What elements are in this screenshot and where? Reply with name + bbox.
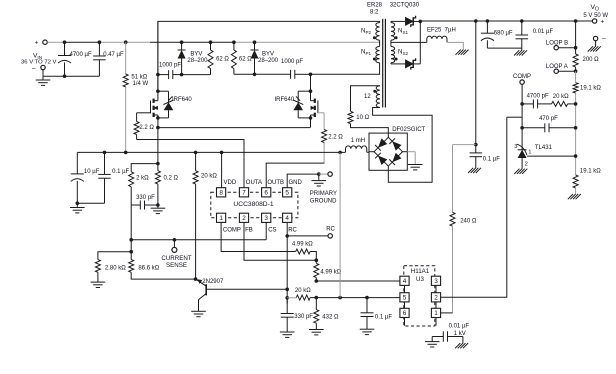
svg-text:51 kΩ: 51 kΩ: [131, 74, 147, 80]
capacitor 0.1uF VDD: [77, 152, 129, 203]
winding NP1: [361, 40, 380, 63]
svg-text:1: 1: [528, 150, 531, 156]
svg-text:10 Ω: 10 Ω: [356, 115, 369, 121]
svg-text:GND: GND: [289, 180, 303, 186]
svg-text:62 Ω: 62 Ω: [216, 57, 229, 63]
wire pin8 VDD: [221, 152, 223, 187]
resistor 20k slope: [193, 152, 217, 279]
svg-text:RC: RC: [326, 227, 335, 233]
svg-text:LOOP A: LOOP A: [546, 64, 568, 70]
wire opto pin5 line: [310, 296, 400, 300]
svg-text:0.1 µF: 0.1 µF: [483, 156, 500, 162]
terminal VIN-: [31, 65, 45, 76]
svg-text:28–200: 28–200: [187, 58, 208, 64]
svg-text:OUTA: OUTA: [246, 180, 262, 186]
svg-text:2.2 Ω: 2.2 Ω: [139, 125, 154, 131]
winding NP2: [361, 23, 380, 41]
diode body left: [156, 91, 174, 120]
svg-text:CS: CS: [268, 228, 276, 234]
svg-text:CURRENT: CURRENT: [161, 255, 191, 262]
wire TL431 ref to divider: [527, 155, 576, 157]
capacitor 0.1uF opto: [361, 298, 393, 330]
capacitor 680uF output: [481, 21, 522, 48]
wire output bus: [420, 19, 592, 23]
bridge diodes: [375, 138, 401, 165]
resistor 0.2ohm shunt: [155, 164, 178, 205]
ground opto cap: [360, 329, 375, 334]
wire opto pin1 anode: [441, 312, 453, 314]
svg-text:4700 pF: 4700 pF: [527, 94, 549, 100]
svg-text:62 Ω: 62 Ω: [239, 57, 252, 63]
svg-text:2N2907: 2N2907: [202, 279, 224, 285]
svg-text:19.1 kΩ: 19.1 kΩ: [580, 85, 601, 91]
svg-text:3: 3: [264, 215, 268, 222]
transistor Q3 2N2907: [194, 277, 287, 311]
wire NP1 bottom to right drain: [309, 63, 380, 76]
svg-text:BYV: BYV: [190, 51, 202, 57]
svg-text:4: 4: [403, 278, 407, 285]
transformer core: [383, 19, 386, 108]
resistor 4.99k lower: [314, 260, 342, 281]
svg-text:20 kΩ: 20 kΩ: [201, 174, 217, 180]
svg-text:SENSE: SENSE: [166, 262, 187, 269]
ground Y-cap primary: [425, 342, 440, 347]
wire source line: [156, 118, 310, 129]
capacitor 1000pF left snubber: [158, 62, 182, 79]
wire aux winding bottom to bridge: [373, 108, 433, 183]
resistor 19.1k upper: [573, 71, 601, 93]
terminal LOOP B: [546, 41, 576, 50]
svg-text:IRF640: IRF640: [275, 97, 295, 103]
svg-text:4.99 kΩ: 4.99 kΩ: [320, 270, 341, 276]
terminal VO-: [593, 36, 605, 47]
terminal COMP: [513, 74, 531, 150]
resistor 240ohm: [450, 145, 477, 313]
svg-text:H11A1: H11A1: [411, 268, 430, 275]
svg-text:5 V 50 W: 5 V 50 W: [583, 13, 608, 19]
label VIN 36 V TO 72 V: [21, 52, 57, 65]
svg-text:BYV: BYV: [262, 51, 274, 57]
svg-text:0.1 µF: 0.1 µF: [375, 314, 392, 320]
capacitor 4700pF zero: [522, 94, 549, 109]
svg-text:OUTB: OUTB: [267, 180, 284, 186]
label U1 pin names top: [224, 180, 303, 186]
resistor 432ohm: [314, 298, 339, 330]
transistor Q1 IRF640 left: [137, 91, 193, 118]
resistor 2.80k: [95, 252, 131, 282]
diode BYV 28-200 left: [178, 42, 208, 76]
terminal CURRENT SENSE: [161, 240, 191, 269]
resistor 86.6k: [129, 252, 196, 279]
svg-text:432 Ω: 432 Ω: [322, 315, 339, 321]
capacitor 0.01uF 1kV Y-cap: [432, 324, 469, 344]
svg-text:1000 pF: 1000 pF: [159, 62, 181, 68]
resistor 51k 1/4W: [123, 42, 148, 152]
svg-text:µH: µH: [448, 28, 456, 34]
wire divider top: [574, 21, 578, 54]
capacitor 4700uF input: [58, 42, 92, 76]
ground input: [36, 76, 51, 85]
svg-text:COMP: COMP: [223, 228, 241, 234]
capacitor 0.47uF input: [93, 42, 124, 76]
svg-text:0.01 µF: 0.01 µF: [533, 29, 554, 35]
svg-text:2 kΩ: 2 kΩ: [136, 176, 149, 182]
ground output filter: [514, 50, 527, 55]
wire VO+ down line: [474, 21, 478, 146]
transistor Q2 IRF640 right: [275, 74, 325, 118]
svg-text:TL431: TL431: [535, 145, 553, 151]
ground 2.80k: [91, 282, 106, 287]
wire pin1 COMP down: [221, 222, 296, 251]
inductor 1mH: [340, 138, 369, 152]
wire VDD to ramp divider: [339, 152, 341, 297]
svg-text:4.99 kΩ: 4.99 kΩ: [292, 241, 313, 247]
capacitor 1000pF right snubber: [255, 59, 311, 79]
wire secondary center tap: [391, 41, 427, 43]
svg-text:2.2 Ω: 2.2 Ω: [328, 134, 343, 140]
diode body right: [293, 89, 312, 127]
svg-text:+: +: [35, 40, 39, 47]
resistor 62ohm right: [231, 42, 254, 74]
svg-text:GROUND: GROUND: [310, 198, 337, 204]
wire drain A vertical: [156, 21, 160, 93]
capacitor 330pF RC: [281, 298, 314, 332]
svg-text:5: 5: [403, 295, 407, 302]
svg-text:−: −: [31, 66, 35, 73]
svg-text:1/4 W: 1/4 W: [133, 81, 149, 87]
svg-text:+: +: [601, 19, 605, 26]
op-amp U1 pins: [217, 188, 292, 223]
terminal LOOP A: [546, 64, 577, 73]
wire pin5 to primary ground: [287, 172, 328, 187]
capacitor 0.1uF bias: [470, 145, 501, 168]
svg-text:FB: FB: [245, 228, 253, 234]
svg-text:0.01 µF: 0.01 µF: [449, 324, 470, 330]
diode 32CTQ030 bottom: [391, 58, 420, 69]
wire OUTA to gate: [137, 140, 244, 188]
svg-text:UCC3808D-1: UCC3808D-1: [233, 201, 273, 208]
wire CS line: [129, 222, 266, 253]
diode BYV 28-200 right: [251, 42, 279, 76]
terminal primary ground: [328, 172, 332, 176]
wire VIN bus gray segment to center tap: [232, 40, 380, 44]
svg-text:6: 6: [264, 190, 268, 197]
wire pin4 RC down: [285, 222, 289, 303]
svg-text:330 pF: 330 pF: [136, 195, 155, 201]
svg-text:8:2: 8:2: [370, 9, 379, 15]
capacitor 470pF pole: [522, 116, 576, 133]
terminal VO+: [592, 19, 604, 26]
wire to 240ohm: [453, 144, 476, 146]
wire drain A top bus: [158, 21, 380, 91]
svg-text:4: 4: [285, 215, 289, 222]
svg-text:36 V TO 72 V: 36 V TO 72 V: [21, 59, 57, 65]
node VIN bus: [47, 40, 234, 44]
wire TL431 anode: [521, 158, 523, 169]
rectifier DF02SGICT bridge: [369, 127, 426, 170]
svg-text:0.2 Ω: 0.2 Ω: [164, 176, 179, 182]
ground shunt: [151, 203, 166, 213]
svg-text:5: 5: [285, 190, 289, 197]
svg-text:330 pF: 330 pF: [294, 314, 313, 320]
ground divider bottom: [568, 194, 581, 199]
wire rectifier cathode node: [419, 21, 421, 64]
svg-text:240 Ω: 240 Ω: [460, 218, 477, 224]
winding NS1: [391, 21, 409, 40]
wire feedback node vertical: [574, 93, 578, 175]
terminal RC: [287, 227, 335, 238]
ground RC cap: [280, 332, 295, 337]
ground VDD caps: [70, 203, 85, 213]
svg-text:0.1 µF: 0.1 µF: [112, 169, 129, 175]
winding aux 12 turns: [364, 86, 380, 108]
ground 432ohm: [309, 330, 324, 335]
diode 32CTQ030 top: [391, 16, 422, 27]
resistor 62ohm left: [182, 42, 230, 74]
label PRIMARY GROUND: [310, 191, 337, 204]
ground secondary after inductor: [456, 50, 469, 55]
svg-text:1 kV: 1 kV: [454, 331, 466, 337]
resistor 20k ramp: [287, 288, 312, 300]
svg-text:20 kΩ: 20 kΩ: [553, 94, 569, 100]
svg-text:−: −: [602, 36, 606, 43]
wire opto cathode tee: [507, 116, 522, 118]
ground primary: [312, 174, 327, 186]
op-amp U1 UCC3808D-1 outline: [211, 192, 298, 218]
svg-text:IRF640: IRF640: [172, 97, 192, 103]
svg-text:19.1 kΩ: 19.1 kΩ: [580, 168, 601, 174]
svg-text:200 Ω: 200 Ω: [583, 57, 600, 63]
resistor 4.99k upper: [292, 241, 318, 262]
svg-text:4700 µF: 4700 µF: [70, 52, 92, 58]
resistor 2.2ohm gate left: [134, 113, 154, 140]
wire pin2 FB down: [244, 222, 316, 260]
optocoupler U3 pins: [400, 276, 441, 326]
svg-text:3: 3: [434, 278, 438, 285]
svg-text:1: 1: [219, 215, 223, 222]
svg-text:12: 12: [364, 94, 371, 100]
svg-text:6: 6: [403, 310, 407, 317]
terminal VIN+: [35, 40, 48, 47]
node VDD rail: [77, 151, 342, 155]
resistor 19.1k lower: [573, 168, 601, 194]
label U1 pin names bottom: [223, 228, 298, 234]
capacitor 330pF filter: [131, 195, 158, 210]
ground bias cap: [468, 168, 481, 173]
svg-text:680 µF: 680 µF: [494, 30, 513, 36]
svg-text:LOOP B: LOOP B: [546, 41, 568, 47]
svg-text:1000 pF: 1000 pF: [281, 59, 303, 65]
svg-text:10 µF: 10 µF: [84, 169, 100, 175]
svg-text:1 mH: 1 mH: [351, 138, 365, 144]
svg-text:2.80 kΩ: 2.80 kΩ: [105, 265, 126, 271]
svg-text:86.6 kΩ: 86.6 kΩ: [138, 265, 159, 271]
ground bridge: [408, 165, 423, 170]
svg-text:PRIMARY: PRIMARY: [310, 191, 337, 197]
wire opto pin4 feedback: [315, 279, 400, 283]
svg-text:DF02SGICT: DF02SGICT: [392, 127, 425, 133]
ground VO- secondary: [588, 46, 601, 51]
svg-text:7: 7: [242, 190, 246, 197]
svg-text:U3: U3: [416, 276, 424, 283]
shunt regulator TL431: [514, 144, 552, 168]
svg-text:2: 2: [525, 162, 528, 168]
svg-text:2: 2: [242, 215, 246, 222]
svg-text:2: 2: [434, 295, 438, 302]
label VO 5V 50W: [583, 4, 608, 19]
wire bridge output to ground: [407, 152, 415, 165]
svg-text:RC: RC: [288, 228, 297, 234]
resistor 2.2ohm gate right: [322, 113, 344, 163]
svg-text:470 pF: 470 pF: [539, 116, 558, 122]
svg-text:EF25: EF25: [427, 28, 442, 34]
svg-text:8: 8: [219, 190, 223, 197]
wire input bottom: [43, 74, 99, 78]
svg-text:COMP: COMP: [513, 74, 531, 80]
svg-text:20 kΩ: 20 kΩ: [295, 288, 311, 294]
ground 2N2907 collector: [191, 311, 206, 316]
winding NS2: [391, 40, 409, 64]
svg-text:0.47 µF: 0.47 µF: [103, 52, 124, 58]
wire source to shunt: [156, 128, 160, 166]
svg-text:28–200: 28–200: [258, 58, 279, 64]
label ER28 8:2 32CTQ030: [367, 2, 420, 15]
capacitor 0.01uF output: [516, 21, 554, 51]
ground Y-cap secondary: [455, 343, 468, 348]
optocoupler U3 H11A1 outline: [404, 266, 435, 326]
resistor 2k filter: [129, 164, 158, 240]
wire inductor to secondary ground: [447, 42, 463, 49]
svg-text:3: 3: [514, 144, 517, 150]
svg-text:32CTQ030: 32CTQ030: [390, 2, 420, 8]
wire OUTB to gate: [266, 163, 324, 188]
resistor 200ohm: [573, 54, 599, 71]
resistor 10ohm aux: [348, 86, 388, 133]
inductor EF25 7uH: [427, 27, 456, 43]
svg-text:VDD: VDD: [224, 180, 237, 186]
resistor 20k zero: [538, 94, 576, 106]
ground TL431: [514, 169, 527, 174]
svg-text:ER28: ER28: [367, 2, 383, 8]
wire opto pin2 to TL431: [441, 117, 507, 297]
svg-text:1: 1: [434, 310, 438, 317]
capacitor 10uF VDD: [71, 152, 100, 205]
